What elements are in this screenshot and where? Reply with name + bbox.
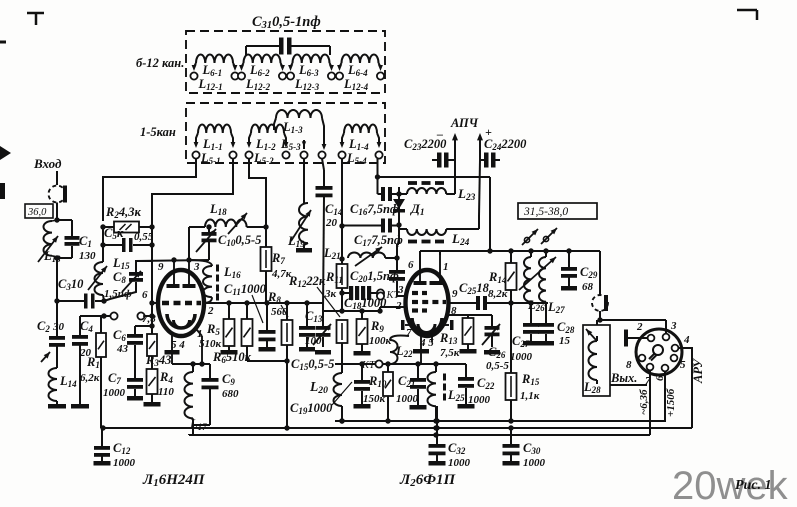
wire pin1 up: [439, 251, 441, 255]
resistor R14: [506, 251, 517, 303]
svg-text:1000: 1000: [468, 394, 491, 406]
ground bar C15: [315, 350, 331, 355]
label L1-1: [202, 137, 223, 152]
svg-text:R7: R7: [271, 251, 285, 266]
label R15: [520, 372, 540, 402]
svg-text:C100,5-5: C100,5-5: [218, 233, 261, 248]
inductor L26: [524, 251, 531, 303]
tube U2 pentode 6F1P: [401, 252, 454, 364]
label C32: [448, 441, 471, 469]
diode D1: [393, 187, 405, 233]
svg-text:68: 68: [582, 281, 594, 293]
svg-text:C167,5пф: C167,5пф: [350, 202, 399, 217]
wire input down: [56, 171, 58, 185]
resistor R6: [242, 303, 253, 361]
svg-text:L12-3: L12-3: [294, 77, 320, 92]
label C28: [557, 320, 575, 347]
inductor L1-1 L5-1: [192, 125, 236, 159]
label L5-1: [200, 151, 221, 166]
svg-text:L22: L22: [395, 344, 413, 359]
label pins 5 4: [171, 339, 185, 351]
label C10: [218, 233, 261, 248]
svg-text:C310: C310: [58, 277, 84, 292]
svg-text:АПЧ: АПЧ: [450, 116, 479, 130]
label L6-2: [249, 63, 270, 78]
label C26: [486, 345, 509, 372]
svg-text:L19: L19: [287, 234, 305, 249]
scan mark left arrow: [0, 146, 11, 160]
inductor L23: [399, 188, 455, 194]
wire L28 top: [596, 320, 598, 341]
label L22: [395, 344, 413, 359]
capacitor C17: [339, 219, 399, 233]
wire box top: [375, 174, 490, 179]
label pin 1 tube2: [443, 261, 449, 273]
inductor L27: [519, 251, 556, 323]
inductor L25: [428, 364, 439, 438]
resistor R5: [224, 303, 235, 350]
wire R6 R8 bottoms: [247, 358, 290, 428]
svg-text:Вход: Вход: [33, 156, 62, 171]
capacitor socket pin2: [624, 330, 648, 347]
label R1: [80, 355, 100, 384]
svg-text:0,5-5: 0,5-5: [486, 360, 509, 372]
inductor L20: [334, 373, 345, 424]
wire C4 top: [80, 315, 104, 317]
label L19: [287, 234, 305, 249]
svg-text:R14: R14: [488, 270, 507, 285]
label L1-2: [255, 137, 276, 152]
wire y260 C8-top to tube: [136, 257, 209, 262]
label C27: [510, 334, 533, 363]
label C24: [484, 137, 527, 152]
capacitor C9: [193, 364, 219, 425]
label C11: [224, 282, 267, 323]
wire APCh arrow left: [452, 133, 458, 194]
label C5: [104, 226, 154, 243]
capacitor C21: [410, 364, 426, 405]
heater terminal 7-8 right: [137, 312, 154, 319]
ground bar R13: [460, 349, 477, 354]
svg-text:7,8: 7,8: [142, 313, 156, 325]
label C25: [459, 281, 490, 296]
inductor L6-2 L12-2: [238, 55, 286, 80]
wire connector to L13: [56, 203, 58, 221]
ground bar R9: [354, 351, 371, 356]
svg-text:1,5пф: 1,5пф: [104, 288, 132, 300]
capacitor C4: [72, 316, 88, 404]
tube socket output: [636, 329, 682, 375]
label C30: [523, 441, 546, 469]
svg-text:15: 15: [559, 335, 571, 347]
box 36,0: [25, 204, 53, 218]
label pin 9 tube2: [452, 288, 458, 300]
label L15: [112, 256, 130, 271]
ground bar C28: [538, 341, 554, 346]
capacitor C27: [523, 303, 539, 341]
svg-text:Рис. 1: Рис. 1: [735, 478, 772, 493]
capacitor C1: [54, 217, 79, 260]
ground bar R5: [221, 350, 238, 355]
svg-text:L5-3: L5-3: [280, 137, 301, 152]
svg-text:C1: C1: [79, 234, 92, 249]
label C19: [290, 382, 352, 416]
label R13: [439, 331, 460, 359]
inductor L18: [189, 213, 266, 234]
ground bar C27: [523, 341, 539, 346]
wire column x152 grid: [149, 245, 154, 326]
capacitor C19: [354, 364, 370, 404]
label pin 1: [197, 328, 203, 340]
resistor R11: [337, 259, 348, 311]
ground bar C26: [484, 350, 500, 355]
wire osc node down: [397, 233, 399, 258]
svg-text:Вых.: Вых.: [610, 371, 637, 385]
label L26: [527, 298, 545, 313]
label minus: [436, 127, 443, 141]
inductor L13: [38, 220, 58, 262]
inductor L15: [88, 245, 107, 301]
wire APCh arrow right: [477, 133, 483, 160]
wire L5-1 left down: [103, 159, 196, 221]
capacitor C8: [104, 261, 152, 301]
label pin 6: [142, 289, 148, 301]
svg-text:1000: 1000: [396, 393, 419, 405]
svg-text:C177,5пф: C177,5пф: [354, 233, 403, 248]
label C6: [113, 328, 129, 355]
svg-text:Л26Ф1П: Л26Ф1П: [399, 472, 456, 489]
svg-text:8: 8: [626, 359, 632, 371]
wire pin6 branch: [135, 323, 155, 328]
wire L18 left vert: [188, 227, 190, 260]
label socket pin5: [680, 359, 686, 371]
svg-text:2: 2: [207, 305, 214, 317]
svg-text:R24,3к: R24,3к: [105, 205, 141, 220]
wire L28 to pin7: [610, 384, 647, 386]
trimmer arrow 1: [522, 229, 538, 245]
scan mark top-right: [737, 10, 757, 20]
svg-text:L14: L14: [59, 374, 77, 389]
svg-text:R5: R5: [206, 322, 220, 337]
svg-text:C4: C4: [80, 319, 93, 334]
wire anode bus tube1: [203, 300, 323, 305]
wire bus corner: [322, 303, 324, 311]
svg-text:C9: C9: [222, 372, 235, 387]
ground bar C19: [354, 404, 371, 409]
svg-text:L25: L25: [447, 388, 465, 403]
svg-text:1000: 1000: [523, 457, 546, 469]
label tube2 type: [399, 472, 456, 489]
svg-text:8,2к: 8,2к: [488, 288, 508, 300]
capacitor C24: [480, 153, 500, 168]
label L27: [547, 300, 565, 315]
svg-text:9: 9: [452, 288, 458, 300]
svg-text:АРУ: АРУ: [691, 358, 705, 384]
label Vyh: [610, 371, 637, 385]
scan mark left tick: [0, 41, 6, 44]
svg-text:1000: 1000: [510, 351, 533, 363]
svg-text:L12-4: L12-4: [343, 77, 369, 92]
test point KT lower: [361, 360, 383, 371]
trimmer arrow C2: [41, 352, 50, 362]
dashed box 6-12 channels: [186, 31, 385, 93]
svg-text:C13: C13: [305, 309, 323, 324]
svg-text:110: 110: [158, 386, 174, 398]
resistor R3: [147, 326, 157, 369]
svg-text:L27: L27: [547, 300, 565, 315]
label C23: [404, 137, 447, 152]
svg-text:C201,5пф: C201,5пф: [350, 269, 399, 284]
label R9: [369, 319, 392, 347]
label L6-3: [298, 63, 319, 78]
resistor R10: [383, 364, 393, 424]
label R11: [324, 270, 343, 300]
ground bar C4: [71, 404, 89, 409]
label 6.3v: [638, 389, 650, 415]
bus wire B1: [335, 418, 665, 423]
capacitor C16: [378, 159, 400, 201]
capacitor C12: [94, 425, 110, 461]
ground bar C11: [259, 347, 276, 352]
label C12: [113, 441, 136, 469]
wire pin7 down: [649, 370, 651, 435]
wire pin6 down: [664, 371, 666, 422]
test point KT mid: [377, 289, 401, 301]
label L13: [43, 249, 61, 264]
capacitor C10: [196, 224, 217, 260]
svg-text:L1-2: L1-2: [255, 137, 276, 152]
label socket pin7: [645, 375, 651, 387]
capacitor C14: [316, 159, 333, 311]
capacitor C7: [127, 378, 143, 396]
svg-text:C28: C28: [557, 320, 575, 335]
ground bar L19: [296, 248, 312, 253]
svg-text:L16: L16: [223, 265, 241, 280]
svg-text:+150б: +150б: [665, 388, 677, 417]
svg-text:C32: C32: [448, 441, 466, 456]
capacitor C5: [100, 227, 154, 252]
label plus: [485, 125, 492, 139]
label L6-4: [347, 63, 368, 78]
capacitor C31 label: [252, 14, 321, 31]
svg-text:L6-1: L6-1: [202, 63, 223, 78]
ground bar R4: [144, 402, 161, 407]
label L1-3: [282, 120, 303, 135]
label L21: [323, 246, 341, 261]
label ARU: [691, 358, 705, 384]
label C21: [396, 374, 419, 405]
svg-text:L28: L28: [583, 380, 601, 395]
label C14: [325, 202, 343, 229]
label pin 2: [207, 305, 214, 317]
svg-text:9: 9: [158, 261, 164, 273]
svg-text:100к: 100к: [369, 335, 392, 347]
label pin 6 tube2: [408, 259, 414, 271]
svg-text:1000: 1000: [103, 387, 126, 399]
svg-text:C29: C29: [580, 265, 598, 280]
svg-text:C150,5-5: C150,5-5: [291, 357, 334, 372]
svg-text:1000: 1000: [113, 457, 136, 469]
label R8: [267, 290, 288, 318]
label C9: [222, 372, 239, 400]
resistor R7: [261, 247, 272, 303]
ground bar C32: [429, 461, 446, 466]
svg-text:L1-3: L1-3: [282, 120, 303, 135]
label pin8 socket: [626, 359, 632, 371]
svg-text:C14: C14: [325, 202, 343, 217]
label L16: [223, 265, 241, 280]
svg-text:5 4: 5 4: [171, 339, 185, 351]
wire node down C8: [151, 245, 153, 261]
svg-text:36,0: 36,0: [27, 207, 47, 218]
svg-text:6,2к: 6,2к: [80, 372, 100, 384]
label pin 7 tube2: [406, 327, 412, 339]
wire cathode node: [172, 361, 210, 366]
svg-text:C2518: C2518: [459, 281, 490, 296]
scan mark top-left: [27, 13, 44, 25]
wire top rail y251: [420, 248, 600, 253]
svg-text:L12-1: L12-1: [198, 77, 223, 92]
svg-text:C22: C22: [477, 376, 495, 391]
svg-text:КТ: КТ: [361, 360, 376, 371]
label 6-12 kan: [136, 56, 184, 70]
inductor L1-4 L5-4: [338, 125, 382, 159]
resistor R13: [463, 318, 474, 349]
trimmer arrow 2: [541, 228, 557, 244]
svg-text:C27: C27: [512, 334, 530, 349]
test point KT grid: [377, 292, 384, 299]
bus wire B3: [189, 425, 650, 435]
label R7: [271, 251, 292, 280]
svg-text:130: 130: [79, 250, 96, 262]
label socket pin3: [670, 320, 677, 332]
label L12-2: [245, 77, 271, 92]
svg-text:R1222к: R1222к: [288, 274, 326, 289]
heater terminal 7-8 left: [101, 312, 117, 319]
wire y311: [323, 308, 383, 313]
label C15: [291, 357, 334, 372]
resistor R4: [147, 369, 158, 402]
wire L5-2 left down: [249, 159, 269, 247]
svg-text:R15: R15: [521, 372, 540, 387]
svg-text:Д1: Д1: [410, 201, 425, 218]
label 1-5 kan: [140, 125, 176, 139]
label L5-2: [253, 151, 274, 166]
tube U1 triode 6N24P: [158, 260, 204, 364]
svg-text:1: 1: [443, 261, 449, 273]
label pin 3 tube2: [397, 284, 404, 296]
svg-text:C232200: C232200: [404, 137, 447, 152]
wire pin6 up: [419, 251, 421, 270]
label pin 7,8: [142, 313, 156, 325]
capacitor C23: [432, 153, 455, 168]
label R4: [158, 370, 174, 398]
wire to socket pin3: [600, 320, 666, 333]
inductor L6-4 L12-4: [336, 55, 384, 80]
label R12: [288, 274, 340, 317]
wire L24 up: [479, 160, 480, 229]
label R5: [199, 322, 222, 350]
label R14: [488, 270, 508, 300]
inductor L24 core dashes: [408, 240, 444, 244]
wire anode2 rail: [511, 300, 548, 305]
capacitor C6: [127, 326, 143, 378]
capacitor C32: [429, 406, 446, 461]
output connector symbol: [592, 251, 608, 323]
svg-text:C6: C6: [113, 328, 126, 343]
svg-text:C7: C7: [108, 371, 121, 386]
label L24: [451, 231, 470, 248]
inductor L1-3 L5-3: [274, 110, 326, 159]
svg-text:L5-4: L5-4: [346, 151, 367, 166]
svg-text:43: 43: [116, 343, 129, 355]
label L5-4: [346, 151, 367, 166]
label L20: [309, 379, 328, 396]
inductor L24: [399, 229, 479, 235]
box 31,5-38,0: [518, 203, 597, 219]
label C3: [58, 277, 84, 292]
label R3: [145, 353, 171, 368]
resistor R9: [357, 311, 368, 351]
label C1: [79, 234, 96, 262]
svg-text:Л16Н24П: Л16Н24П: [142, 472, 206, 489]
svg-text:R6510к: R6510к: [212, 350, 252, 365]
label +150v: [665, 388, 677, 417]
svg-text:C191000: C191000: [290, 401, 333, 416]
label pin 3: [193, 261, 200, 273]
svg-text:7,5к: 7,5к: [440, 347, 460, 359]
label socket pin4: [683, 334, 690, 346]
wire box right vert: [487, 177, 492, 254]
box L28: [583, 325, 610, 396]
svg-text:R9: R9: [370, 319, 384, 334]
watermark 20wek: [672, 464, 789, 507]
label C20: [350, 269, 399, 284]
label R6: [212, 350, 252, 365]
svg-text:C2: C2: [37, 319, 50, 334]
wire pin8 R13: [447, 315, 468, 318]
svg-text:L6-2: L6-2: [249, 63, 270, 78]
label L12-3: [294, 77, 320, 92]
label Vhod: [33, 156, 62, 171]
label L18: [209, 202, 227, 217]
capacitor C25: [447, 296, 514, 310]
svg-text:5: 5: [680, 359, 686, 371]
ground bar C21: [410, 405, 427, 410]
resistor R8: [282, 303, 293, 361]
inductor L14: [49, 368, 58, 404]
label L12-1: [198, 77, 223, 92]
capacitor C22: [458, 364, 474, 404]
svg-text:C8: C8: [113, 270, 126, 285]
capacitor C29: [561, 251, 577, 286]
label L12-4: [343, 77, 369, 92]
svg-text:30: 30: [52, 321, 65, 333]
inductor L25 core dashes: [443, 374, 446, 401]
capacitor C3: [54, 294, 106, 309]
svg-text:R8: R8: [267, 290, 281, 305]
label pins 4 5 tube2: [419, 337, 434, 349]
label C22: [468, 376, 495, 406]
label socket pin6: [654, 375, 666, 381]
wire L5-1 right up: [152, 159, 233, 227]
svg-text:L18: L18: [209, 202, 227, 217]
svg-text:L1-1: L1-1: [202, 137, 223, 152]
svg-text:L1-4: L1-4: [348, 137, 369, 152]
svg-text:2: 2: [636, 321, 643, 333]
wire L13 down: [56, 258, 58, 336]
capacitor C18: [339, 286, 377, 300]
